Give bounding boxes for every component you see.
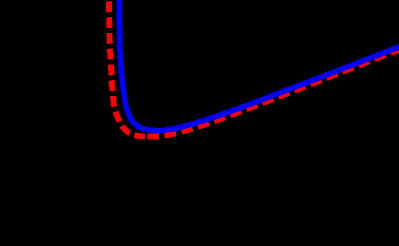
blue solid curve bbox=[119, 0, 399, 131]
red dashed curve: steep left wall segment bbox=[109, 0, 146, 137]
red dashed curve: rising tail segment bbox=[146, 49, 399, 136]
